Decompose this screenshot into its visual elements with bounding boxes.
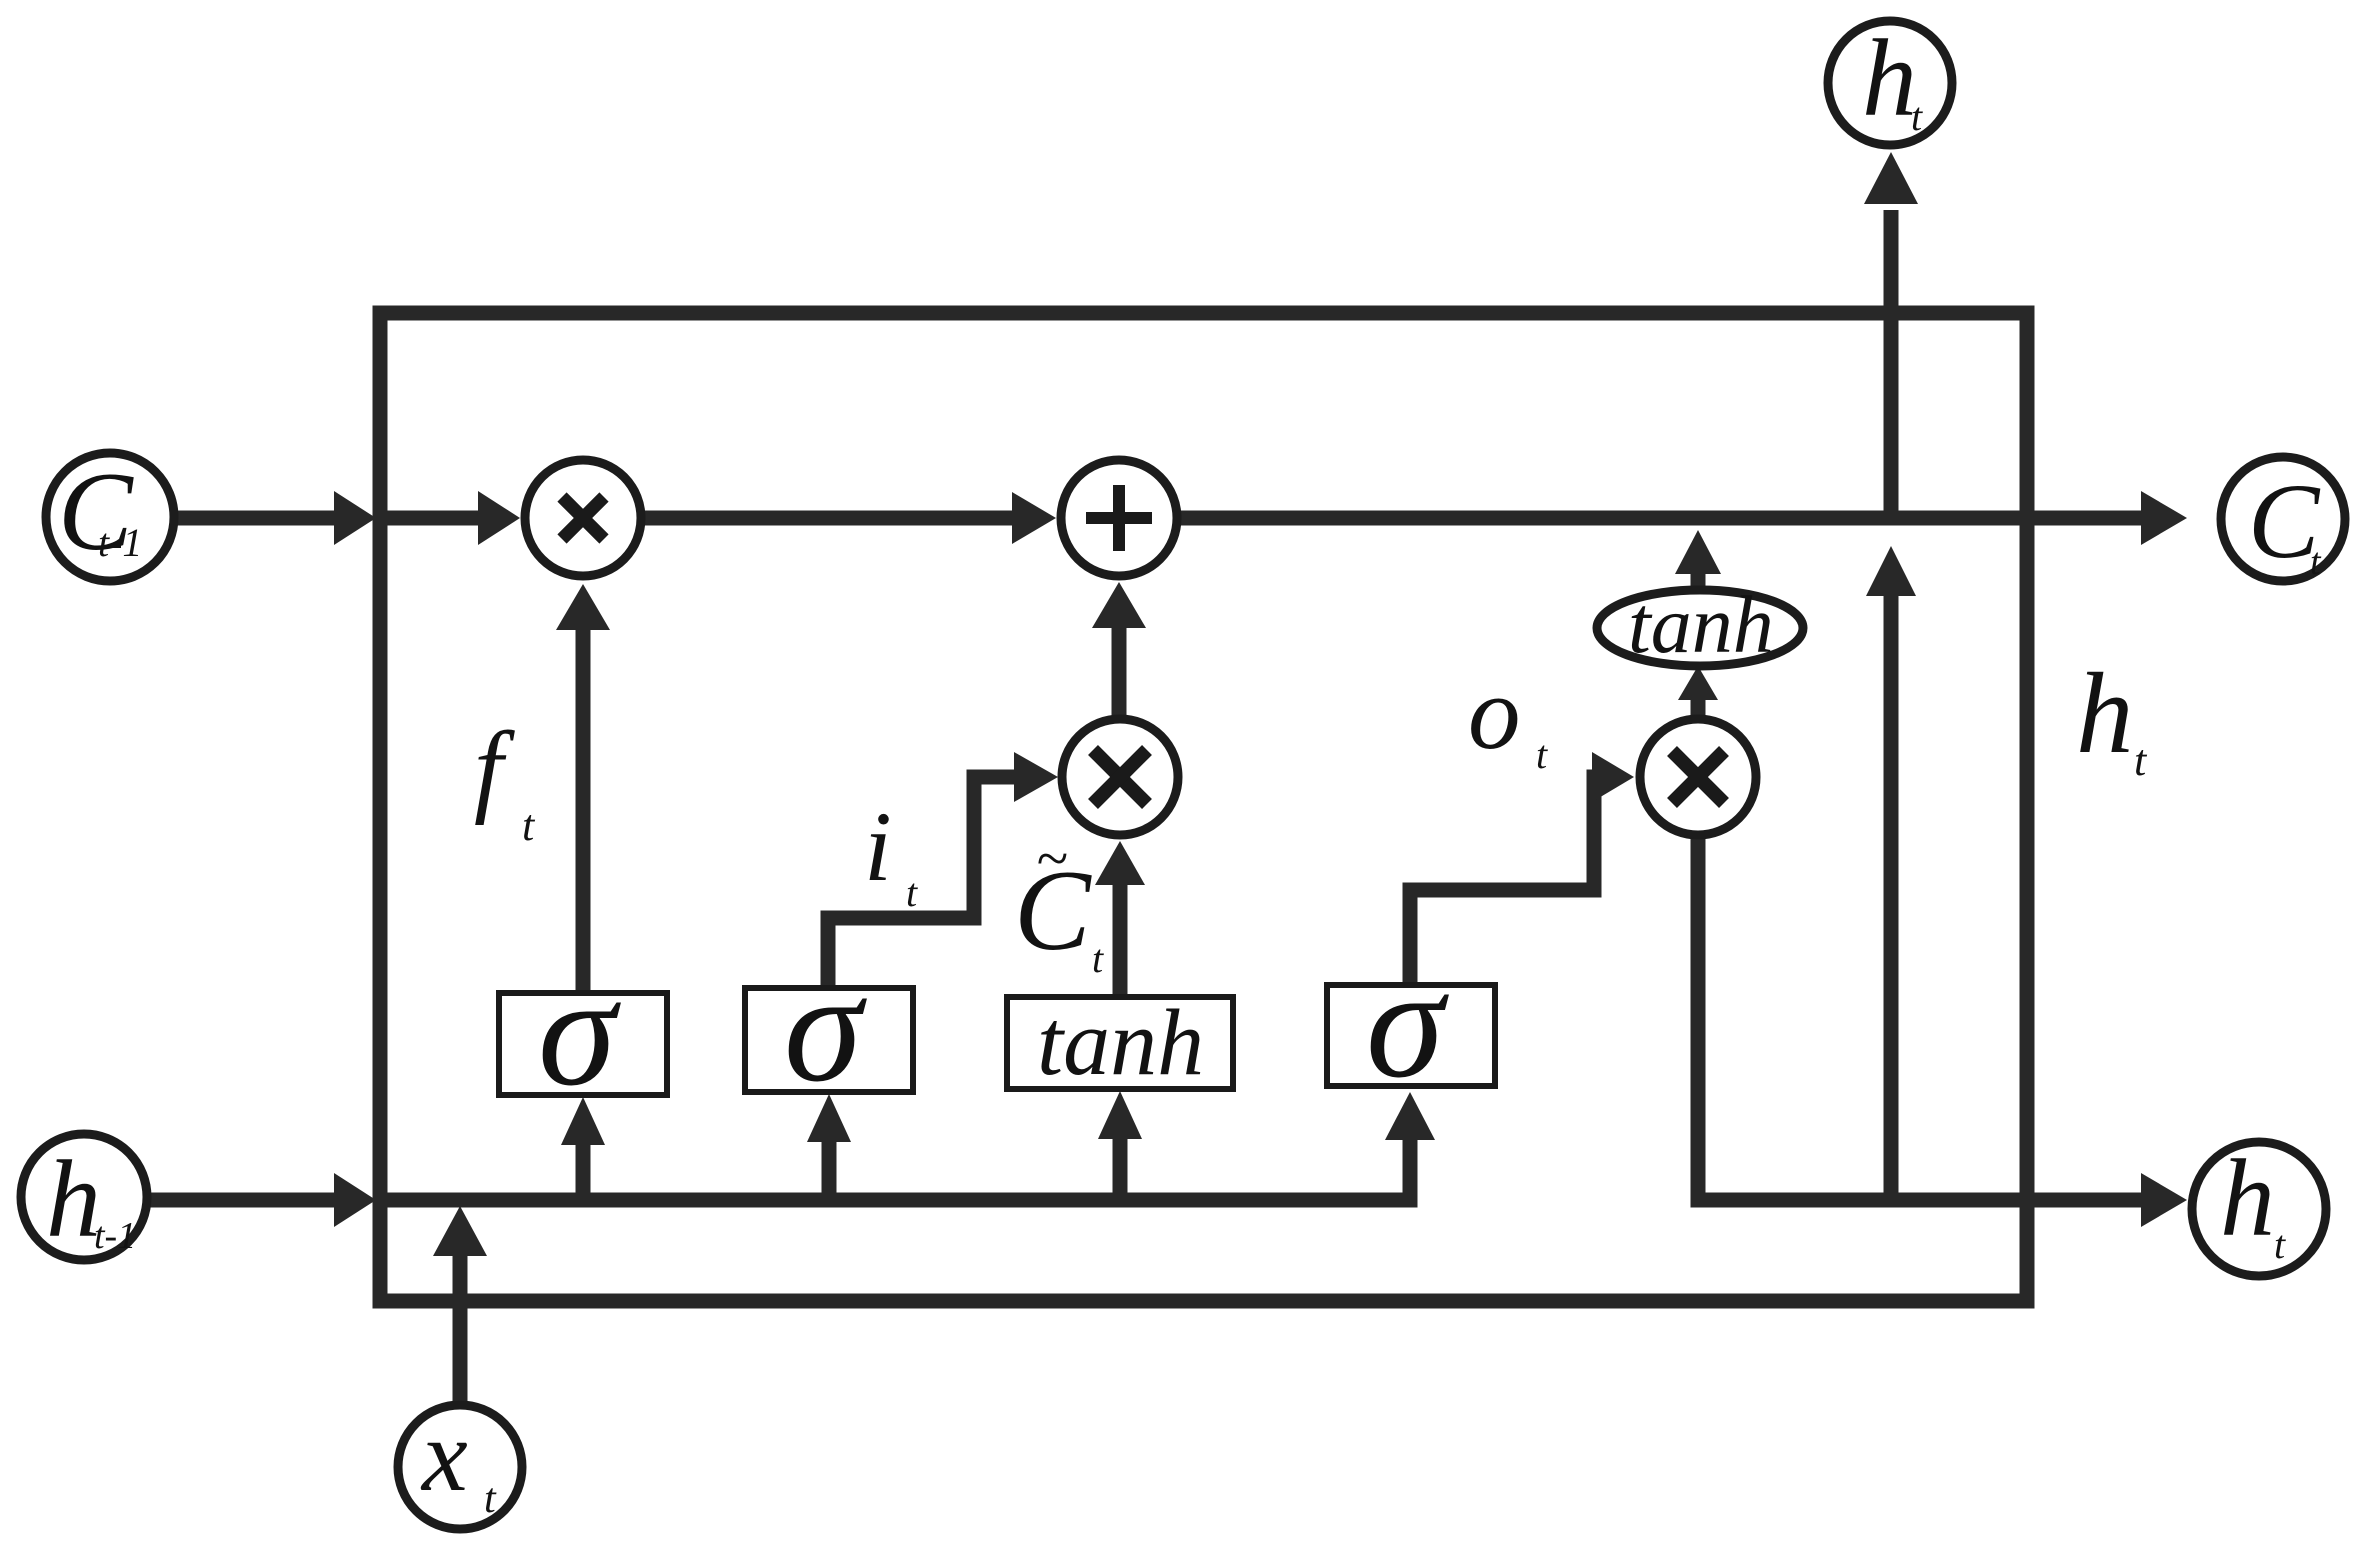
svg-text:~: ~ [1036, 826, 1067, 891]
gate box tanh (candidate) [1007, 997, 1233, 1089]
x-gate circle (input multiply) [1062, 719, 1178, 835]
node h_t top output circle [1828, 21, 1952, 145]
tanh ellipse (output squash) [1597, 590, 1803, 666]
wire inner h bus across cell bottom with elbow up into sigma3 [380, 1092, 1435, 1200]
svg-text:o: o [1468, 654, 1521, 771]
node C_t-1 input circle [46, 453, 174, 581]
gate box sigma3 (output gate) [1327, 985, 1495, 1086]
node h_t right output circle [2192, 1142, 2326, 1276]
node C_t output circle [2221, 457, 2345, 581]
wire output path from x-gate down and right to h_t with arrowhead [1698, 833, 2187, 1227]
wire short arrow from output x-gate up into tanh ellipse [1678, 666, 1718, 720]
multiply symbol in output x-gate [1672, 751, 1724, 803]
svg-text:t-1: t-1 [98, 520, 142, 565]
wire C-line from x-gate to +-gate with arrowhead [640, 492, 1056, 544]
svg-text:σ: σ [1366, 936, 1449, 1111]
node h_t-1 input circle [21, 1134, 147, 1260]
wire riser from bus into sigma2 with arrowhead [807, 1094, 851, 1205]
wire riser from bus into sigma1 with arrowhead [561, 1097, 605, 1205]
svg-text:h: h [2220, 1137, 2275, 1259]
svg-text:σ: σ [784, 940, 867, 1115]
wire C-line from boundary into forget x-gate with arrowhead [380, 491, 520, 545]
plus symbol in plus-gate [1086, 512, 1152, 524]
multiply symbol in input x-gate [1093, 750, 1147, 804]
x-gate circle (forget multiply) [525, 460, 641, 576]
x-gate circle (output multiply) [1640, 719, 1756, 835]
wire h-line from h_t-1 to cell boundary with arrowhead [144, 1173, 376, 1227]
wire h_t riser upper segment into top h_t with arrowhead [1864, 152, 1918, 511]
wire from input x-gate up into +-gate [1092, 582, 1146, 721]
svg-text:σ: σ [538, 944, 621, 1119]
wire C-line from +-gate to C_t output with arrowhead [1176, 491, 2187, 545]
wire riser from bus into tanh box with arrowhead [1098, 1091, 1142, 1205]
svg-text:x: x [420, 1399, 468, 1513]
gate box sigma2 (input gate) [745, 988, 913, 1092]
svg-text:t: t [1092, 936, 1104, 981]
node x_t input circle [398, 1405, 522, 1529]
wire C-tilde arrow from tanh box up into input x-gate [1095, 841, 1145, 999]
svg-text:t: t [1536, 732, 1548, 777]
wire h_t riser lower segment with arrowhead below C-line [1866, 546, 1916, 1200]
multiply symbol in forget x-gate [562, 497, 604, 539]
wire short arrow from tanh ellipse up to C-line [1675, 530, 1721, 590]
wire i_t staircase elbow from sigma2 into input x-gate [828, 752, 1058, 990]
svg-text:f: f [474, 711, 515, 826]
svg-text:tanh: tanh [1628, 579, 1774, 670]
wire o_t staircase elbow from sigma3 into output x-gate [1410, 752, 1634, 988]
svg-text:h: h [2076, 650, 2134, 777]
svg-text:t: t [2274, 1222, 2286, 1267]
svg-text:t: t [906, 870, 918, 915]
wire x_t input arrow up to bus [433, 1206, 487, 1406]
svg-text:t: t [2310, 541, 2322, 583]
svg-text:h: h [46, 1138, 101, 1260]
gate box sigma1 (forget gate) [499, 993, 667, 1095]
plus-gate circle (cell state sum) [1061, 460, 1177, 576]
svg-text:t: t [1911, 94, 1923, 139]
svg-text:h: h [1862, 17, 1917, 139]
LSTM cell boundary box [380, 313, 2027, 1301]
svg-text:t: t [484, 1476, 497, 1522]
svg-text:tanh: tanh [1037, 991, 1204, 1095]
wire C-line from C_t-1 to cell boundary with arrowhead [168, 491, 376, 545]
svg-text:t-1: t-1 [94, 1215, 136, 1257]
wire f_t arrow from sigma1 up into forget x-gate [556, 584, 610, 995]
svg-text:i: i [864, 791, 892, 902]
svg-text:t: t [2134, 736, 2148, 785]
svg-text:t: t [522, 801, 536, 850]
